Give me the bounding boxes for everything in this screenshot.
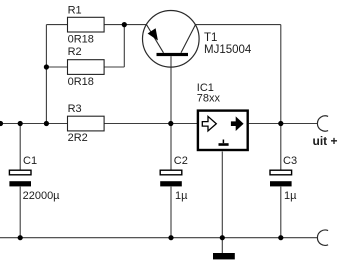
wire collector top (196, 24, 281, 26)
terminal bottom (317, 230, 328, 245)
wire R1 right to emitter (104, 24, 146, 26)
node output (278, 121, 283, 126)
wire R2 left (46, 66, 67, 68)
svg-text:R3: R3 (68, 103, 82, 115)
IC1 input arrow (open) (202, 116, 216, 131)
svg-text:1µ: 1µ (175, 190, 188, 202)
wire middle rail left segment (0, 123, 68, 125)
capacitor C3 (270, 155, 297, 202)
svg-text:C1: C1 (23, 155, 37, 167)
IC1 common pin mark (222, 140, 224, 144)
svg-text:T1: T1 (204, 32, 217, 44)
node input edge (0, 121, 3, 126)
wire base lead and C2 top lead (170, 56, 172, 170)
regulator IC1 (197, 82, 248, 150)
node C3 bottom (278, 235, 283, 240)
ground (213, 253, 235, 259)
wire R1 left (46, 24, 67, 26)
node R2 left (44, 64, 49, 69)
wire vertical R1R2 right junction (123, 25, 125, 67)
svg-text:2R2: 2R2 (68, 132, 88, 144)
wire C1 top lead (19, 124, 21, 171)
resistor R2 (68, 46, 105, 88)
terminal uit + (313, 116, 338, 148)
svg-text:78xx: 78xx (197, 93, 221, 105)
wire R2 right (104, 66, 124, 68)
svg-text:22000µ: 22000µ (23, 190, 61, 202)
wire C3 bottom lead (280, 187, 282, 238)
wire right vertical collector to output node (280, 25, 282, 124)
svg-text:1µ: 1µ (284, 190, 297, 202)
svg-text:0R18: 0R18 (68, 33, 94, 45)
capacitor C2 (160, 155, 188, 202)
resistor R1 (68, 4, 105, 45)
resistor R3 (68, 103, 105, 144)
node C1 top (18, 121, 23, 126)
wire IC1 output to terminal (249, 123, 318, 125)
node IC1 ground (220, 235, 225, 240)
svg-text:0R18: 0R18 (68, 76, 94, 88)
node C2 bottom (168, 235, 173, 240)
node base / C2 (168, 121, 173, 126)
svg-text:C3: C3 (283, 155, 297, 167)
transistor T1 (143, 11, 252, 68)
wire C1 bottom lead (19, 187, 21, 238)
wire C2 bottom lead (170, 187, 172, 238)
svg-text:MJ15004: MJ15004 (204, 44, 252, 56)
wire middle rail R3 to IC1 (104, 123, 197, 125)
capacitor C1 (9, 155, 60, 202)
node C1 bottom (18, 235, 23, 240)
wire bottom rail (0, 237, 318, 239)
node R1 right (122, 22, 127, 27)
svg-text:R2: R2 (68, 46, 82, 58)
svg-text:uit +: uit + (313, 134, 338, 148)
wire IC1 ground pin (221, 152, 223, 254)
wire left vertical bus (45, 25, 47, 124)
node R bus middle (44, 121, 49, 126)
svg-text:C2: C2 (174, 155, 188, 167)
wire C3 top lead (280, 124, 282, 171)
IC1 output arrow (solid) (231, 116, 244, 131)
svg-text:R1: R1 (68, 4, 82, 16)
